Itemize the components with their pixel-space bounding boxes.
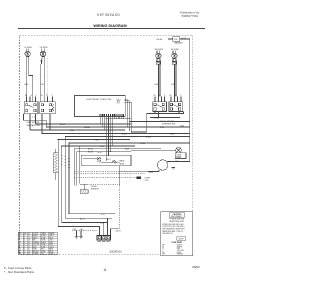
svg-text:O-43: O-43 — [154, 84, 158, 86]
dashed ground link — [72, 229, 97, 231]
surface unit P5 (right rear) — [156, 50, 161, 58]
U1 connector pins P1..P13 — [100, 114, 124, 116]
wire sensor drop — [119, 166, 121, 185]
wire labels on bus — [60, 124, 184, 154]
svg-text:SERVICING UNIT: SERVICING UNIT — [169, 221, 184, 223]
surface unit P3 (left front) — [25, 48, 30, 56]
svg-text:BROIL: BROIL — [49, 251, 54, 253]
svg-text:08: 08 — [28, 251, 30, 253]
svg-text:BROIL: BROIL — [120, 163, 125, 165]
svg-text:Y-6: Y-6 — [172, 169, 175, 171]
wire bus run 9 — [62, 145, 135, 147]
wire to terminal from right — [111, 229, 120, 236]
svg-text:WARMER: WARMER — [174, 42, 183, 45]
svg-text:16: 16 — [24, 251, 26, 253]
svg-text:NONE: NONE — [41, 237, 45, 239]
svg-text:YELLOW: YELLOW — [33, 244, 40, 246]
svg-text:GN-73: GN-73 — [116, 231, 121, 233]
wire bus run 5 — [42, 133, 190, 135]
wire bus run 2 — [36, 123, 132, 125]
svg-text:14: 14 — [24, 240, 26, 242]
svg-text:07: 07 — [28, 249, 30, 251]
wire lower run 3 — [62, 222, 108, 224]
svg-text:SURF: SURF — [49, 242, 53, 244]
oven sensor label — [91, 186, 100, 190]
ground symbol G1 — [75, 231, 79, 239]
EOC right stubs and risers — [125, 98, 128, 100]
wire color code table text — [19, 232, 55, 255]
wire bus run 10 — [74, 148, 161, 150]
svg-text:BK-12: BK-12 — [88, 149, 93, 151]
svg-text:03: 03 — [28, 240, 30, 242]
wire P5 leads — [156, 59, 158, 62]
wire bus L1 run — [129, 121, 190, 123]
wire bus run 11 — [77, 151, 131, 153]
hidden wiring (dashed) run 1 — [74, 170, 160, 172]
cabinet dashed border — [20, 35, 193, 254]
svg-text:BROWN: BROWN — [33, 251, 39, 253]
svg-text:TOD: TOD — [145, 180, 150, 182]
splice ticks on riser bundle — [61, 155, 70, 167]
oven box labels — [88, 149, 125, 166]
svg-text:02: 02 — [28, 237, 30, 239]
svg-text:L1: L1 — [159, 95, 161, 97]
svg-text:R-3: R-3 — [117, 103, 120, 105]
svg-text:BLUE: BLUE — [33, 246, 37, 248]
svg-text:NONE: NONE — [41, 246, 45, 248]
broil element E1 (vertical) — [54, 149, 59, 180]
svg-text:L2: L2 — [175, 95, 177, 97]
svg-text:SURF: SURF — [49, 244, 53, 246]
svg-text:NOTE: NOTE — [179, 238, 185, 240]
svg-text:14: 14 — [24, 235, 26, 237]
infinite switch S4 (left rear) — [40, 97, 55, 114]
svg-text:06: 06 — [28, 246, 30, 248]
svg-text:BR-38: BR-38 — [88, 151, 93, 153]
svg-text:H1: H1 — [154, 95, 156, 97]
svg-text:YEL: YEL — [41, 253, 44, 255]
electronic oven control U1 — [75, 96, 126, 117]
wire element links — [83, 157, 97, 159]
svg-text:BK-71: BK-71 — [80, 218, 85, 220]
svg-text:W-72: W-72 — [100, 223, 104, 225]
svg-text:GN: GN — [19, 253, 21, 255]
svg-text:LIGHT: LIGHT — [49, 246, 54, 248]
svg-text:Y-45: Y-45 — [95, 139, 99, 141]
svg-text:V-52: V-52 — [100, 146, 104, 148]
svg-text:Y-35: Y-35 — [40, 84, 44, 86]
svg-text:GY-7: GY-7 — [107, 159, 111, 161]
wire pin link run — [105, 118, 131, 120]
wire S5-S6 bottom link — [147, 113, 184, 115]
surface unit P4 (left rear) — [40, 48, 45, 56]
thermal limiter labels — [157, 38, 187, 45]
notice box — [161, 212, 193, 256]
wire bus run 4 — [30, 129, 125, 131]
svg-text:R-40: R-40 — [70, 130, 74, 132]
thermal limiter S1 (top right) — [168, 37, 190, 42]
svg-text:5995377361: 5995377361 — [182, 14, 199, 18]
oven light DS1 — [131, 147, 181, 153]
oven chassis box — [81, 155, 131, 166]
svg-text:WIRING DIAGRAM: WIRING DIAGRAM — [93, 24, 126, 28]
ground symbol G2 — [79, 231, 83, 239]
terminal block lugs — [98, 240, 110, 243]
svg-text:GY-44: GY-44 — [140, 143, 145, 145]
oven TOD F1 — [136, 177, 141, 179]
terminal codes above left switches — [25, 95, 53, 97]
svg-text:GREEN: GREEN — [177, 254, 184, 256]
wire bus run 7 — [58, 139, 130, 141]
broil element E3 — [112, 161, 118, 165]
svg-text:NONE: NONE — [41, 240, 45, 242]
oven TOD label — [145, 178, 151, 182]
right switch label — [160, 121, 175, 126]
svg-text:INSULATION.: INSULATION. — [162, 232, 173, 235]
wire P3 left lead — [25, 57, 27, 97]
svg-text:16: 16 — [24, 246, 26, 248]
oven light label box — [175, 153, 186, 159]
fuse arrow under P4 — [40, 57, 43, 64]
svg-text:GREEN: GREEN — [33, 253, 39, 255]
oven temperature sensor RT1 — [80, 184, 88, 193]
U1 pin drop wires — [99, 116, 101, 124]
svg-text:WHITE: WHITE — [33, 237, 38, 239]
svg-text:LIGHT: LIGHT — [176, 157, 181, 159]
wire color code table — [18, 232, 57, 255]
wire lower run 4 — [58, 227, 99, 236]
wire bus run 6 — [65, 136, 189, 138]
svg-text:RR SURF: RR SURF — [155, 49, 164, 51]
door switch S7 — [120, 160, 175, 172]
svg-text:01: 01 — [28, 235, 30, 237]
svg-text:TOD: TOD — [174, 39, 179, 41]
svg-text:KEF355ASD: KEF355ASD — [97, 13, 120, 17]
oven TOD sensor line (dashed) — [74, 177, 136, 179]
wire oven feeds — [73, 149, 75, 186]
svg-text:NONE: NONE — [41, 244, 45, 246]
svg-text:W-21: W-21 — [125, 149, 129, 151]
svg-text:NEUT: NEUT — [49, 237, 53, 239]
svg-text:H1: H1 — [25, 95, 27, 97]
svg-text:16: 16 — [24, 242, 26, 244]
svg-text:L1: L1 — [31, 95, 33, 97]
wire lower run 2 — [65, 217, 112, 219]
wire S5/S6 drops — [154, 112, 156, 114]
svg-text:16: 16 — [24, 244, 26, 246]
svg-text:16: 16 — [24, 253, 26, 255]
svg-text:H2: H2 — [170, 95, 172, 97]
wire S3 out to bus — [24, 114, 47, 127]
left switch label — [26, 117, 39, 127]
svg-text:OR-4: OR-4 — [180, 126, 184, 128]
wire drops to block — [103, 223, 105, 236]
svg-text:LR SURF: LR SURF — [40, 47, 49, 49]
svg-text:BK-34: BK-34 — [146, 136, 151, 138]
infinite switch S5 (right rear) — [153, 97, 167, 112]
terminal block TB1 — [97, 236, 111, 241]
svg-text:R-70: R-70 — [101, 214, 105, 216]
svg-text:W-22A: W-22A — [84, 126, 90, 129]
wire P3 right lead with jog — [29, 57, 33, 97]
door switch labels — [149, 157, 181, 175]
wire P4 dashed lead — [47, 58, 49, 97]
svg-text:04: 04 — [28, 242, 30, 244]
svg-text:09: 09 — [28, 253, 30, 255]
wire P6 leads — [172, 59, 174, 62]
wire bus run 8 — [69, 142, 190, 144]
svg-text:O-33: O-33 — [24, 84, 28, 86]
svg-text:Y-45: Y-45 — [171, 84, 175, 86]
infinite switch S6 (right front) — [169, 97, 183, 112]
wire P4 right lead — [43, 57, 45, 97]
wire tags on right burner leads — [154, 84, 175, 86]
svg-text:RD-66: RD-66 — [157, 39, 162, 41]
hidden wiring (dashed) run 2 — [74, 173, 145, 175]
svg-text:R-25: R-25 — [160, 127, 164, 129]
svg-text:BK-30: BK-30 — [60, 124, 65, 126]
svg-text:LINE 1: LINE 1 — [49, 235, 54, 237]
wire bus run 3 — [46, 126, 190, 128]
svg-text:16: 16 — [24, 249, 26, 251]
svg-text:GY-55: GY-55 — [181, 38, 186, 40]
wire lower labels — [80, 214, 121, 233]
svg-text:NONE: NONE — [41, 235, 45, 237]
sensor lead (dashed) — [88, 183, 119, 185]
bake element E2 — [97, 158, 101, 163]
junction dots — [41, 126, 131, 171]
svg-text:14: 14 — [24, 237, 26, 239]
svg-text:* - Non Illustrated Parts: * - Non Illustrated Parts — [4, 270, 34, 274]
svg-text:SURFACE SW: SURFACE SW — [162, 123, 175, 126]
svg-text:OR-64: OR-64 — [121, 133, 126, 135]
svg-text:05: 05 — [28, 244, 30, 246]
svg-text:BU: BU — [19, 246, 21, 248]
header rule — [18, 27, 205, 29]
wire S3/S4 drops — [29, 114, 31, 130]
svg-text:COLOR: COLOR — [33, 233, 39, 235]
P6 terminal tag — [172, 62, 176, 65]
P5 terminal tag — [156, 62, 160, 65]
left riser bundle — [57, 140, 59, 227]
svg-text:RF SURF: RF SURF — [171, 49, 180, 51]
svg-text:LINE 2: LINE 2 — [49, 240, 54, 242]
svg-text:ELECTRONIC OVEN CTRL: ELECTRONIC OVEN CTRL — [87, 99, 113, 101]
svg-text:316245301: 316245301 — [109, 250, 122, 253]
wire door switch to riser — [168, 161, 190, 163]
terminal codes above right switches — [154, 95, 182, 97]
svg-text:GY: GY — [19, 249, 21, 251]
infinite switch S3 (left front) — [24, 97, 38, 114]
svg-text:08/02: 08/02 — [192, 265, 200, 269]
svg-text:11: 11 — [103, 268, 107, 272]
wire lower run 1 — [69, 213, 116, 215]
wire tags on left burner leads — [24, 84, 44, 86]
svg-text:Y: Y — [19, 244, 20, 246]
surface unit P6 (right front) — [172, 50, 177, 58]
svg-text:BU-8: BU-8 — [149, 172, 153, 174]
svg-text:NONE: NONE — [41, 251, 45, 253]
svg-text:LF SURF: LF SURF — [24, 47, 32, 49]
wire P4 left lead — [40, 64, 42, 97]
svg-text:W-14: W-14 — [98, 152, 102, 154]
svg-text:SENSOR: SENSOR — [91, 189, 100, 191]
svg-text:OR-24: OR-24 — [154, 117, 159, 119]
